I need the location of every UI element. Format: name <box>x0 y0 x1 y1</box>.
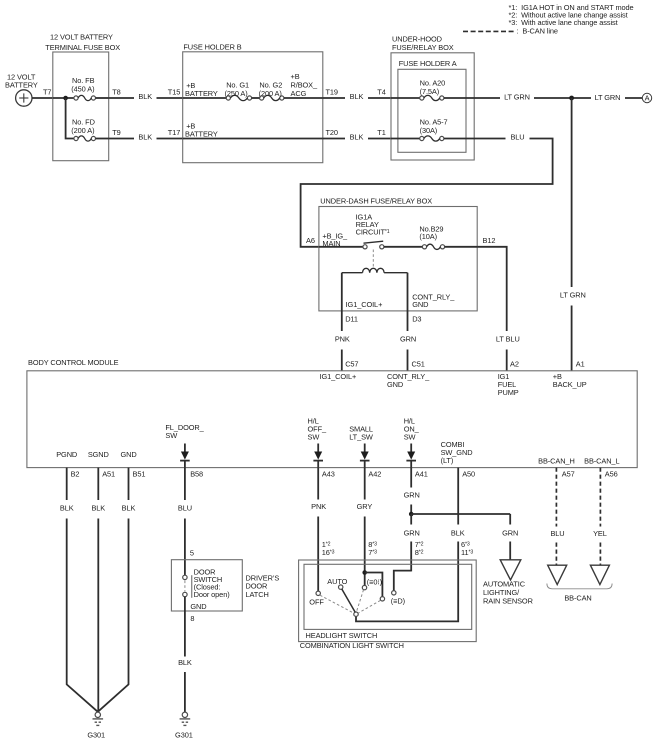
wire A43 PNK to OFF contact <box>311 468 326 591</box>
relay IG1A contact <box>319 241 422 249</box>
svg-text:T4: T4 <box>377 88 385 97</box>
label CONT_RLY_GND inside box4 <box>412 293 455 310</box>
SMALL LT_SW input arrow <box>360 444 370 468</box>
svg-text:SW: SW <box>165 431 177 440</box>
wire G2 to box2 edge <box>284 97 323 99</box>
label +B BATTERY row2 <box>185 121 218 138</box>
svg-text:(10A): (10A) <box>419 232 437 241</box>
svg-text:(30A): (30A) <box>420 126 438 135</box>
svg-text:Door open): Door open) <box>194 590 230 599</box>
svg-text:(250 A): (250 A) <box>225 89 248 98</box>
svg-text:(LT): (LT) <box>441 456 454 465</box>
wire T19 to T4 BLK <box>323 92 391 101</box>
wire GRN to rain sensor <box>502 514 518 560</box>
box BODY CONTROL MODULE <box>27 358 637 468</box>
svg-text:C51: C51 <box>412 359 425 368</box>
svg-text:GRY: GRY <box>357 502 373 511</box>
svg-text:5: 5 <box>190 548 194 557</box>
box UNDER-HOOD FUSE/RELAY BOX <box>391 35 474 161</box>
legend B-CAN dashed line <box>463 27 558 36</box>
label IG1 FUEL PUMP in BCM <box>498 372 519 397</box>
node junction small light branch <box>362 570 367 575</box>
svg-text:A: A <box>645 94 650 103</box>
wire A51 BLK to G301 <box>91 468 105 712</box>
box 12 VOLT BATTERY TERMINAL FUSE BOX <box>45 32 120 160</box>
wire junction to A1 LT GRN <box>560 98 586 371</box>
svg-text:BLK: BLK <box>178 658 192 667</box>
wire LT GRN label2 to connector <box>595 93 643 102</box>
label H/L ON_SW <box>404 416 420 441</box>
wire B58 BLU to door switch <box>178 468 192 576</box>
box HEADLIGHT SWITCH <box>304 564 472 640</box>
svg-text:COMBINATION LIGHT SWITCH: COMBINATION LIGHT SWITCH <box>300 641 404 650</box>
dashed position line to P4 <box>358 600 380 613</box>
svg-text:T20: T20 <box>326 128 338 137</box>
pin 8*3 7*3 <box>368 540 377 557</box>
svg-text:CIRCUIT*1: CIRCUIT*1 <box>356 227 390 236</box>
svg-text:A42: A42 <box>368 470 381 479</box>
svg-text:BATTERY: BATTERY <box>5 80 38 89</box>
fuse No.B29 (10A) <box>422 244 444 249</box>
svg-text:GND: GND <box>120 450 136 459</box>
svg-text:A2: A2 <box>510 359 519 368</box>
box FUSE HOLDER B <box>183 42 323 162</box>
label CONT_RLY_GND in BCM <box>387 372 430 389</box>
node junction rain sensor branch <box>409 512 414 517</box>
svg-text:BLK: BLK <box>138 92 152 101</box>
label No. A20 (7.5A) <box>420 78 446 96</box>
label AUTOMATIC LIGHTING/ RAIN SENSOR <box>483 579 533 605</box>
svg-text:FUSE HOLDER B: FUSE HOLDER B <box>183 42 241 51</box>
svg-text:BATTERY: BATTERY <box>185 89 218 98</box>
svg-text:A56: A56 <box>605 470 618 479</box>
svg-text:TERMINAL FUSE BOX: TERMINAL FUSE BOX <box>45 43 120 52</box>
svg-text:BB-CAN: BB-CAN <box>564 593 591 602</box>
svg-text:T1: T1 <box>377 128 385 137</box>
wire A42 GRY to small-light contact <box>357 468 373 586</box>
wire LT GRN label1 <box>504 92 591 101</box>
connector to AUTOMATIC LIGHTING/RAIN SENSOR <box>500 560 521 580</box>
box FUSE HOLDER A <box>398 59 466 152</box>
svg-text:T15: T15 <box>168 88 180 97</box>
svg-text:B2: B2 <box>71 470 80 479</box>
svg-text:A50: A50 <box>462 470 475 479</box>
label +B_IG_MAIN <box>322 232 348 249</box>
svg-text:A57: A57 <box>562 470 575 479</box>
svg-text:GND: GND <box>412 300 428 309</box>
svg-text:YEL: YEL <box>593 529 607 538</box>
wire D3 to C51 GRN <box>400 311 416 371</box>
wire B2 BLK to G301 <box>60 468 98 712</box>
svg-text:LT GRN: LT GRN <box>504 92 530 101</box>
box DOOR SWITCH / DRIVER'S DOOR LATCH <box>171 560 242 611</box>
svg-text:BLK: BLK <box>350 133 364 142</box>
wire B29 to box4 edge <box>445 246 478 248</box>
wire A50 BLK to switch common <box>356 468 465 622</box>
connector BB-CAN BLU <box>548 565 567 584</box>
svg-text:HEADLIGHT SWITCH: HEADLIGHT SWITCH <box>306 631 378 640</box>
wire T20 to T1 BLK <box>323 133 391 142</box>
label H/L OFF_SW <box>308 416 327 441</box>
label +B R/BOX_ ACG <box>291 72 318 98</box>
wire A41 GRN upper <box>404 468 420 514</box>
svg-text:BLK: BLK <box>122 503 136 512</box>
svg-text:GND: GND <box>387 380 403 389</box>
svg-text:GRN: GRN <box>400 334 416 343</box>
svg-text:A41: A41 <box>415 470 428 479</box>
svg-text:SGND: SGND <box>88 450 109 459</box>
svg-text:T17: T17 <box>168 128 180 137</box>
wire junction to rain sensor branch <box>411 513 510 515</box>
box COMBINATION LIGHT SWITCH <box>299 560 477 650</box>
wire T9 to T17 BLK <box>109 133 183 142</box>
wire coil- lead to D3 <box>407 273 409 311</box>
switch blade AUTO position <box>342 589 355 612</box>
wire BLU from A5-7 to A6 <box>301 133 553 247</box>
label No. A5-7 (30A) <box>420 118 448 136</box>
svg-text:BLU: BLU <box>510 133 524 142</box>
contact OFF <box>309 591 324 606</box>
wire FD to box1 edge <box>96 138 109 140</box>
wire branch to P4 contact <box>365 573 383 597</box>
wire door switch to box bottom <box>184 597 186 611</box>
wire row2 inside box2 <box>183 138 323 140</box>
connector BB-CAN YEL <box>590 565 609 584</box>
wire B12 to A2 LT BLU <box>477 247 519 371</box>
fuse No. A20 (7.5A) <box>420 95 444 100</box>
label No. FD (200 A) <box>71 117 95 135</box>
door switch contact top <box>183 575 187 579</box>
svg-text:PUMP: PUMP <box>498 388 519 397</box>
H/L ON_SW input arrow <box>406 444 416 468</box>
label No.B29 (10A) <box>419 224 443 241</box>
fuse No. FB (450 A) <box>74 95 96 100</box>
H/L OFF_SW input arrow <box>313 444 323 468</box>
svg-text:OFF: OFF <box>309 597 324 606</box>
relay actuator dashed link <box>372 250 374 267</box>
svg-text:BATTERY: BATTERY <box>185 130 218 139</box>
svg-text:PNK: PNK <box>311 502 326 511</box>
svg-text:LT BLU: LT BLU <box>496 334 520 343</box>
svg-text:BB-CAN_L: BB-CAN_L <box>584 456 619 465</box>
svg-text:T19: T19 <box>326 88 338 97</box>
svg-text:IG1_COIL+: IG1_COIL+ <box>346 300 383 309</box>
svg-text:BLK: BLK <box>451 529 465 538</box>
svg-text:LT GRN: LT GRN <box>560 291 586 300</box>
wire door switch BLK to G301 <box>178 611 192 712</box>
svg-text:B12: B12 <box>483 236 496 245</box>
wire coil+ lead to D11 <box>341 273 343 311</box>
svg-text:A51: A51 <box>102 470 115 479</box>
label No. G2 (200 A) <box>259 81 283 99</box>
wire box1 entry <box>53 97 74 99</box>
svg-text:FUSE/RELAY BOX: FUSE/RELAY BOX <box>392 43 454 52</box>
svg-text:IG1_COIL+: IG1_COIL+ <box>320 372 357 381</box>
wire D11 to C57 PNK <box>335 311 350 371</box>
door switch contact bottom <box>183 592 187 596</box>
svg-text:SW: SW <box>404 432 416 441</box>
svg-text:(7.5A): (7.5A) <box>420 87 440 96</box>
relay IG1A coil <box>342 268 408 272</box>
svg-text:GND: GND <box>190 602 206 611</box>
node junction LT GRN <box>569 96 574 101</box>
fuse No. G2 (200 A) <box>260 95 284 100</box>
label No. FB (450 A) <box>71 76 94 94</box>
svg-text:G301: G301 <box>87 731 105 740</box>
svg-text:A43: A43 <box>322 470 335 479</box>
svg-text:BACK_UP: BACK_UP <box>553 380 587 389</box>
label COMBI SW_GND (LT) <box>441 440 473 465</box>
label FL_DOOR_SW <box>165 423 204 440</box>
svg-text:No. FB: No. FB <box>72 76 95 85</box>
svg-text:FUSE HOLDER A: FUSE HOLDER A <box>399 59 457 68</box>
wire junction down to FD <box>66 98 74 139</box>
label DOOR SWITCH (Closed: Door open) <box>192 567 230 599</box>
svg-text:(≡D): (≡D) <box>391 597 405 606</box>
fuse No. FD (200 A) <box>74 136 96 141</box>
svg-text:No. FD: No. FD <box>72 117 95 126</box>
svg-text:T8: T8 <box>112 88 120 97</box>
svg-text:D3: D3 <box>412 314 421 323</box>
connector A <box>642 93 651 102</box>
wire A20 out <box>444 97 500 99</box>
svg-text:BLK: BLK <box>60 503 74 512</box>
svg-text:SW: SW <box>308 432 320 441</box>
svg-text:BLU: BLU <box>178 503 192 512</box>
wire into fuse A5-7 <box>391 138 420 140</box>
pin 1*2 16*3 <box>322 540 335 557</box>
label +B BATTERY row1 <box>185 81 218 98</box>
wire A57 BLU dashed B-CAN <box>550 468 564 565</box>
svg-text:BLK: BLK <box>138 133 152 142</box>
svg-text:(200 A): (200 A) <box>71 126 94 135</box>
svg-text:GRN: GRN <box>404 529 420 538</box>
label IG1A RELAY CIRCUIT*1 <box>356 212 390 236</box>
svg-text:T7: T7 <box>43 88 51 97</box>
svg-text:BLK: BLK <box>350 92 364 101</box>
svg-text:PNK: PNK <box>335 334 350 343</box>
brace BB-CAN <box>547 584 612 603</box>
svg-text:LT_SW: LT_SW <box>349 432 373 441</box>
svg-text:AUTO: AUTO <box>327 577 347 586</box>
svg-text:B58: B58 <box>190 470 203 479</box>
pin 6*3 11*3 <box>461 540 473 557</box>
svg-text:: B-CAN line: : B-CAN line <box>517 27 558 36</box>
battery 12 VOLT BATTERY <box>5 72 38 106</box>
svg-text:RAIN SENSOR: RAIN SENSOR <box>483 596 533 605</box>
pin 7*2 8*2 <box>415 540 424 557</box>
svg-text:G301: G301 <box>175 731 193 740</box>
wire row1 inside box2 <box>183 97 227 99</box>
svg-text:LATCH: LATCH <box>246 590 269 599</box>
svg-text:C57: C57 <box>345 359 358 368</box>
svg-text:12 VOLT BATTERY: 12 VOLT BATTERY <box>50 32 113 41</box>
label +B BACK_UP in BCM <box>553 372 587 389</box>
svg-text:BB-CAN_H: BB-CAN_H <box>538 456 575 465</box>
svg-text:GRN: GRN <box>404 490 420 499</box>
svg-text:A1: A1 <box>576 359 585 368</box>
dashed position line to OFF <box>320 595 354 613</box>
node junction battery feed <box>63 96 68 101</box>
label No. G1 (250 A) <box>225 81 250 99</box>
fuse No. G1 (250 A) <box>226 95 251 100</box>
svg-text:LT GRN: LT GRN <box>595 93 621 102</box>
label SMALL LT_SW <box>349 424 373 441</box>
svg-text:GRN: GRN <box>502 529 518 538</box>
ground G301 <box>175 712 193 739</box>
svg-text:D11: D11 <box>345 314 358 323</box>
ground G301 <box>87 712 105 739</box>
fuse No. A5-7 (30A) <box>420 136 444 141</box>
wire battery to fuse box <box>32 97 53 99</box>
door switch actuator dashed <box>184 581 186 592</box>
svg-text:(450 A): (450 A) <box>71 85 94 94</box>
wire B51 BLK to G301 <box>98 468 136 712</box>
svg-text:BODY CONTROL MODULE: BODY CONTROL MODULE <box>28 358 119 367</box>
FL_DOOR_SW input arrow <box>180 444 190 468</box>
contact small-light <box>362 577 382 590</box>
wire T8 to T15 BLK <box>109 92 183 101</box>
wire A41 GRN lower to headlight-on contact <box>394 514 420 591</box>
contact P4 <box>380 597 384 601</box>
wire between G1 and G2 <box>252 97 260 99</box>
svg-text:(≡0⁝): (≡0⁝) <box>367 577 382 586</box>
contact AUTO <box>327 577 347 589</box>
svg-text:PGND: PGND <box>56 450 77 459</box>
box UNDER-DASH FUSE/RELAY BOX <box>319 197 477 311</box>
svg-text:A6: A6 <box>306 236 315 245</box>
switch common pivot contact <box>354 612 358 616</box>
svg-text:ACG: ACG <box>291 89 307 98</box>
contact headlight-on <box>391 591 405 606</box>
wire A56 YEL dashed B-CAN <box>593 468 607 565</box>
wire into fuse A20 <box>391 97 420 99</box>
svg-text:*3: With active lane change a: *3: With active lane change assist <box>509 18 618 27</box>
svg-text:B51: B51 <box>133 470 146 479</box>
dashed position line to small-light <box>357 590 364 612</box>
svg-text:BLK: BLK <box>91 503 105 512</box>
svg-text:BLU: BLU <box>550 529 564 538</box>
wire FB to box1 edge <box>96 97 109 99</box>
svg-text:8: 8 <box>190 614 194 623</box>
label DRIVER'S DOOR LATCH <box>246 574 280 599</box>
svg-text:T9: T9 <box>112 128 120 137</box>
svg-text:(200 A): (200 A) <box>259 89 282 98</box>
svg-text:UNDER-DASH FUSE/RELAY BOX: UNDER-DASH FUSE/RELAY BOX <box>320 197 432 206</box>
